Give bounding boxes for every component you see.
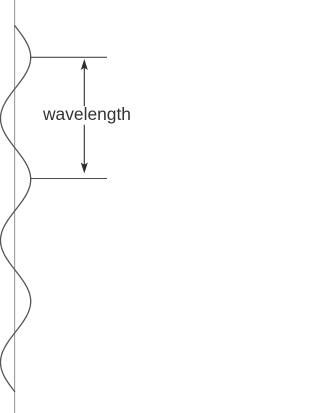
rest-position vertical line xyxy=(14,0,16,413)
crest reference line 1 xyxy=(30,56,107,58)
crest reference line 2 xyxy=(30,178,107,180)
arrowhead up xyxy=(81,59,88,70)
arrow shaft lower segment xyxy=(83,125,85,166)
wave (transverse wave curve) xyxy=(1,26,31,392)
arrow shaft upper segment xyxy=(83,66,85,106)
arrowhead down xyxy=(81,163,88,174)
svg-text:wavelength: wavelength xyxy=(42,104,131,124)
